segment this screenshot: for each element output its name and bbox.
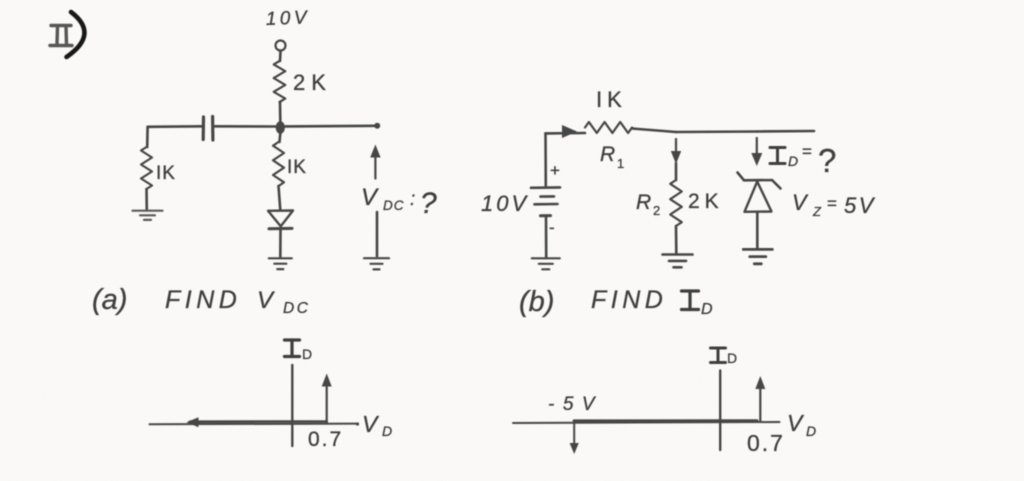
- graph R: label 0.7: [747, 430, 785, 456]
- label - (battery): [549, 218, 555, 237]
- heading paren ): [67, 12, 85, 57]
- node A junction dot: [276, 121, 285, 134]
- ground (R2, b): [663, 255, 693, 268]
- label 2K (R2 value): [688, 190, 724, 213]
- ground (battery, b): [532, 258, 560, 269]
- label R2: [636, 191, 660, 218]
- graph L: label 0.7: [308, 428, 343, 451]
- wire capacitor to left corner: [148, 125, 202, 128]
- graph R: label V_D: [787, 410, 816, 439]
- label I_D = ?: [770, 142, 836, 179]
- wire node B to node C: [676, 130, 757, 133]
- wire node A to R 1K middle: [278, 133, 281, 142]
- label 2K: [293, 70, 332, 95]
- resistor 1K (left): [141, 147, 152, 189]
- wire R 1K to diode D1: [279, 186, 281, 210]
- zener diode D2: [738, 173, 781, 212]
- graph R: horizontal axis V_D: [513, 422, 780, 423]
- resistor 1K (middle): [273, 142, 284, 186]
- wire R 2K to node A: [279, 102, 282, 122]
- label V_DC = ?: [361, 184, 437, 220]
- label + (battery): [550, 161, 560, 180]
- graph R: label -5V: [548, 394, 603, 415]
- diode D1 (a): [268, 211, 293, 229]
- resistor R2 2K: [670, 180, 682, 226]
- wire end dot (right node): [374, 123, 380, 129]
- wire supply to R 2K: [279, 51, 282, 61]
- arrow V_DC (up): [370, 145, 380, 179]
- ground (left, a): [133, 211, 163, 220]
- current arrow R2 branch: [671, 139, 681, 164]
- wire left corner down: [146, 127, 149, 147]
- label 1K (middle): [287, 157, 307, 178]
- graph L: vertical axis: [291, 365, 293, 446]
- wire diode D1 to ground: [279, 229, 282, 257]
- graph L: axis end dot: [356, 422, 359, 425]
- wire node A left to capacitor: [215, 125, 277, 128]
- wire V_DC branch to ground: [376, 212, 379, 256]
- wire battery top lead: [544, 133, 547, 185]
- graph L: label I_D axis: [285, 340, 313, 362]
- label 1K (R1 value): [596, 87, 627, 112]
- resistor R1 1K (horizontal): [585, 122, 632, 133]
- graph R: label I_D axis: [711, 348, 738, 366]
- wire node B to R2: [675, 163, 678, 180]
- wire R2 to ground: [675, 226, 678, 253]
- current arrow I_D (zener): [751, 138, 762, 166]
- ground (middle, a): [269, 258, 292, 269]
- wire 1K left to ground: [145, 189, 148, 210]
- caption (b) FIND I_D: [519, 286, 713, 318]
- label 1K (left): [156, 163, 176, 184]
- graph L: diode curve flat segment: [190, 420, 327, 423]
- caption (a) FIND V_DC: [92, 284, 310, 317]
- graph R: zener breakdown drop: [570, 423, 579, 454]
- capacitor C1: [203, 117, 213, 141]
- graph L: diode curve vertical rise: [322, 374, 332, 424]
- graph R: vertical axis: [719, 371, 721, 451]
- label 10V (battery): [481, 191, 529, 216]
- label 10V supply (a): [265, 7, 310, 30]
- wire R1 to node B: [632, 129, 676, 133]
- ground (right, a): [364, 258, 389, 269]
- wire zener to ground: [756, 212, 759, 248]
- ground (zener, b): [743, 249, 772, 263]
- graph L: horizontal axis V_D: [150, 423, 357, 426]
- wire node A to right end: [285, 125, 377, 128]
- battery V1 10V: [531, 187, 560, 215]
- current arrow into R1: [562, 125, 577, 138]
- wire node C to right end: [757, 130, 814, 133]
- graph L: label V_D: [362, 411, 392, 439]
- graph L: curve arrow left: [187, 417, 201, 427]
- wire battery - to ground: [545, 217, 548, 258]
- graph R: diode curve vertical rise: [755, 376, 765, 421]
- label R1: [600, 143, 624, 171]
- resistor 2K: [274, 61, 286, 102]
- heading label II: [50, 26, 72, 46]
- wire battery + to R1: [546, 132, 586, 135]
- graph R: zener curve flat segment: [574, 419, 757, 422]
- terminal circle 10V node: [276, 41, 286, 51]
- label V_Z = 5V: [792, 190, 876, 219]
